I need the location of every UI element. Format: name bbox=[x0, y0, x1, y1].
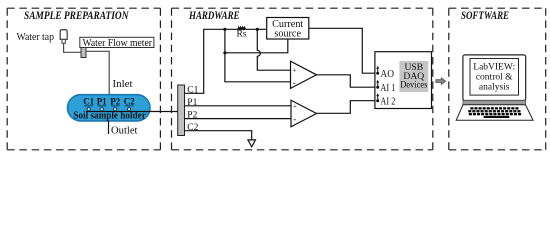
water tap icon bbox=[60, 30, 67, 40]
wire P2 to op-amp U2 bbox=[185, 118, 292, 120]
svg-text:+: + bbox=[293, 66, 297, 74]
laptop screen box LabVIEW bbox=[470, 59, 519, 96]
junction on current-source return wire bbox=[223, 51, 226, 54]
wire op-amp U1 output to AI1 bbox=[317, 75, 378, 87]
wire Rs-left down to op-amp U1 inverting input bbox=[225, 29, 291, 82]
electrode labels C1 P1 P2 C2 bbox=[83, 97, 135, 107]
laptop hinge bbox=[463, 101, 526, 105]
op-amp U2 bbox=[291, 100, 317, 127]
svg-text:C2: C2 bbox=[124, 97, 135, 107]
svg-text:AI 1: AI 1 bbox=[380, 83, 395, 94]
wire current source bottom return bbox=[225, 39, 288, 53]
dashed box HARDWARE bbox=[172, 8, 433, 150]
svg-text:P2: P2 bbox=[110, 97, 120, 107]
pin AO bbox=[376, 72, 379, 75]
pin AI 1 bbox=[376, 86, 379, 89]
wire C2 to ground bbox=[185, 131, 252, 140]
box Water Flow meter bbox=[80, 37, 154, 47]
op-amp U1 bbox=[291, 61, 317, 88]
wire current source output to AO bbox=[309, 28, 378, 73]
svg-text:SAMPLE PREPARATION: SAMPLE PREPARATION bbox=[24, 10, 129, 22]
node Rs-left bbox=[223, 28, 226, 31]
svg-text:Rs: Rs bbox=[236, 30, 246, 40]
svg-text:C1: C1 bbox=[83, 97, 94, 107]
box current source bbox=[267, 18, 309, 40]
node Rs-right bbox=[256, 28, 259, 31]
laptop screen bbox=[463, 55, 526, 101]
svg-text:analysis: analysis bbox=[479, 82, 510, 92]
svg-text:-: - bbox=[293, 78, 296, 88]
electrode pins bbox=[87, 108, 131, 111]
laptop keys bbox=[468, 107, 521, 118]
wire op-amp U2 output to AI2 bbox=[317, 101, 378, 114]
pipe flow meter to inlet bbox=[86, 51, 109, 94]
wire Rs-right down to op-amp U1 non-inverting input (with hop) bbox=[257, 29, 290, 70]
dashed box SAMPLE PREPARATION bbox=[7, 8, 160, 150]
dashed box SOFTWARE bbox=[449, 8, 546, 150]
svg-text:Outlet: Outlet bbox=[111, 126, 138, 137]
svg-text:HARDWARE: HARDWARE bbox=[188, 10, 240, 22]
svg-text:control &: control & bbox=[476, 72, 513, 82]
laptop base bbox=[456, 105, 533, 121]
svg-text:Soil sample holder: Soil sample holder bbox=[73, 111, 146, 122]
resistor Rs (zigzag drawn over wire) bbox=[238, 27, 246, 29]
svg-text:AI 2: AI 2 bbox=[380, 96, 395, 107]
pipe tap to flow meter bbox=[64, 43, 81, 52]
box USB DAQ devices bbox=[375, 52, 432, 109]
wire P1 to op-amp U2 bbox=[185, 105, 292, 107]
svg-text:C2: C2 bbox=[187, 123, 198, 133]
wire C1 bbox=[185, 29, 267, 93]
soil sample holder (blue capsule) bbox=[68, 95, 151, 121]
outlet line bbox=[108, 121, 110, 134]
block arrow DAQ to laptop bbox=[436, 78, 446, 85]
svg-text:-: - bbox=[293, 114, 296, 124]
pin AI 2 bbox=[376, 99, 379, 102]
svg-text:AO: AO bbox=[380, 69, 394, 80]
svg-text:Water Flow meter: Water Flow meter bbox=[83, 38, 153, 49]
flow meter inlet port bbox=[81, 48, 86, 58]
electrode connector bar bbox=[178, 85, 185, 136]
svg-text:LabVIEW:: LabVIEW: bbox=[473, 62, 515, 72]
svg-text:+: + bbox=[293, 103, 297, 111]
svg-text:Devices: Devices bbox=[400, 80, 427, 91]
svg-text:Inlet: Inlet bbox=[113, 79, 133, 90]
svg-text:Water tap: Water tap bbox=[17, 32, 55, 43]
svg-text:source: source bbox=[274, 29, 301, 40]
ground bbox=[248, 140, 256, 147]
svg-text:SOFTWARE: SOFTWARE bbox=[461, 10, 509, 22]
svg-text:P1: P1 bbox=[97, 97, 107, 107]
electrode label underlines bbox=[84, 105, 133, 107]
wire holder to electrode bar bbox=[87, 111, 178, 113]
